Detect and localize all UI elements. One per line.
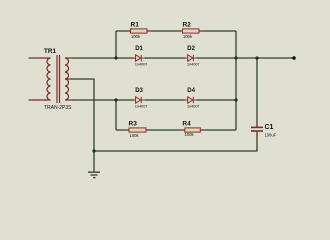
secondary winding upper (3 loops, bulge right) bbox=[65, 58, 69, 79]
resistor R3 leads bbox=[126, 129, 149, 131]
svg-text:C1: C1 bbox=[265, 124, 274, 131]
node: junction at (116,58) bbox=[114, 56, 117, 59]
resistor R2 bbox=[183, 29, 200, 33]
ground bbox=[88, 172, 100, 177]
svg-text:R1: R1 bbox=[131, 21, 140, 28]
wire: left vertical from top row down to D1 row at x=116 bbox=[115, 31, 117, 58]
node: junction at (236,58) bbox=[234, 56, 237, 59]
resistor R3 bbox=[129, 128, 146, 132]
svg-text:R3: R3 bbox=[129, 120, 138, 127]
primary bottom lead bbox=[29, 99, 51, 101]
svg-text:R4: R4 bbox=[182, 120, 191, 127]
svg-text:1n4007: 1n4007 bbox=[135, 61, 148, 66]
transformer TR1 bbox=[29, 55, 74, 103]
secondary center tap lead bbox=[65, 78, 72, 80]
svg-text:D1: D1 bbox=[135, 46, 143, 52]
diode D2 bbox=[185, 55, 197, 61]
wire: D1/D2 row y=58 from transformer to D1 bbox=[72, 57, 134, 59]
svg-text:D2: D2 bbox=[187, 46, 195, 52]
core line right bbox=[59, 55, 61, 103]
svg-text:100uF: 100uF bbox=[265, 133, 277, 138]
node: junction at (236,100) bbox=[234, 98, 237, 101]
resistor R2 leads bbox=[180, 30, 203, 32]
wire: ground stem x=94 bbox=[93, 151, 95, 172]
svg-text:TRAN-2P3S: TRAN-2P3S bbox=[44, 105, 72, 111]
resistor R1 bbox=[131, 29, 148, 33]
secondary bottom lead bbox=[65, 99, 73, 101]
svg-text:R2: R2 bbox=[183, 21, 192, 28]
node: output end dot at (294,58) bbox=[292, 56, 296, 60]
svg-text:D3: D3 bbox=[135, 88, 143, 94]
svg-text:D4: D4 bbox=[187, 88, 195, 94]
core line left bbox=[56, 55, 58, 103]
wire: cap top vertical x=257 from dot y=58 to cap plate bbox=[256, 58, 258, 127]
wire: bottom row y=151 from x=94 to cap x=257 bbox=[94, 132, 257, 151]
primary winding (6 loops, bulge left) bbox=[47, 58, 51, 100]
secondary top lead bbox=[65, 57, 73, 59]
wire: right bus vertical x=236 from y=31 to y=130 bbox=[235, 31, 237, 130]
wire: vertical x=116 from D3 row y=100 down to R3 row y=130 bbox=[115, 100, 117, 130]
resistor R4 leads bbox=[182, 129, 204, 131]
svg-text:100k: 100k bbox=[183, 34, 193, 39]
node: junction at (257,58) bbox=[255, 56, 258, 59]
secondary winding lower (3 loops, bulge right) bbox=[65, 79, 69, 100]
wire: D1/D2 row y=58 from D2 to end dot x=294 bbox=[197, 57, 295, 59]
resistor R4 bbox=[185, 128, 201, 132]
capacitor C1 bbox=[251, 121, 263, 138]
node: junction at (116,100) bbox=[114, 98, 117, 101]
svg-text:100k: 100k bbox=[185, 132, 195, 137]
primary top lead bbox=[29, 57, 51, 59]
wire: R3/R4 row y=130 from x=116 to x=236 bbox=[116, 129, 236, 131]
wire: D3/D4 row y=100 from transformer to D3 bbox=[72, 99, 134, 101]
wire: D1/D2 row y=58 between D1 and D2 bbox=[145, 57, 186, 59]
wire: D3/D4 row y=100 from D4 to bus x=236 bbox=[197, 99, 237, 101]
wire: top row y=31 from x=116 to x=236 bbox=[116, 30, 236, 32]
svg-text:100k: 100k bbox=[131, 34, 141, 39]
svg-text:1n4007: 1n4007 bbox=[135, 104, 148, 109]
svg-text:100k: 100k bbox=[130, 133, 140, 138]
diode D3 bbox=[133, 97, 145, 103]
node: junction at (94,151) bbox=[92, 149, 95, 152]
wire: D3/D4 row y=100 between D3 and D4 bbox=[145, 99, 186, 101]
diode D4 bbox=[185, 97, 197, 103]
diode D1 bbox=[133, 55, 145, 61]
svg-text:TR1: TR1 bbox=[44, 48, 57, 55]
resistor R1 leads bbox=[128, 30, 151, 32]
svg-text:1n4007: 1n4007 bbox=[187, 104, 200, 109]
wire: center tap run right then down x=94 bbox=[71, 79, 94, 151]
svg-text:1n4007: 1n4007 bbox=[187, 61, 200, 66]
